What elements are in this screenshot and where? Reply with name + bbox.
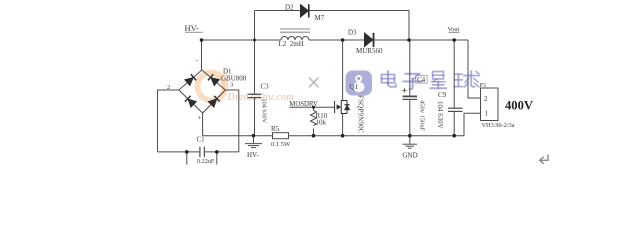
svg-text:0.22uF: 0.22uF <box>197 158 215 165</box>
svg-text:D3: D3 <box>348 29 357 37</box>
svg-text:2: 2 <box>484 95 488 103</box>
svg-text:L2 2mH: L2 2mH <box>279 40 304 48</box>
svg-text:VH3.96-2/3a: VH3.96-2/3a <box>482 122 515 129</box>
svg-text:C3: C3 <box>261 83 270 91</box>
svg-text:10k: 10k <box>316 119 327 127</box>
svg-text:P3: P3 <box>480 83 486 89</box>
svg-text:3: 3 <box>230 82 233 89</box>
svg-text:GND: GND <box>403 152 418 160</box>
svg-text:1: 1 <box>485 110 489 118</box>
svg-text:104 630V: 104 630V <box>436 101 444 129</box>
svg-text:R5: R5 <box>271 125 280 133</box>
svg-text:FSQP9N90C: FSQP9N90C <box>356 95 364 134</box>
svg-text:MOSDRV: MOSDRV <box>289 101 318 108</box>
svg-text:D2: D2 <box>285 4 294 12</box>
svg-text:M7: M7 <box>315 14 325 22</box>
svg-text:-: - <box>196 56 199 64</box>
svg-text:GBU808: GBU808 <box>221 75 247 83</box>
svg-text:0.1 5W: 0.1 5W <box>271 141 291 148</box>
svg-text:450v 150uF: 450v 150uF <box>419 100 426 132</box>
svg-text:C1: C1 <box>197 136 206 144</box>
svg-text:C9: C9 <box>438 91 447 99</box>
svg-text:104 630V: 104 630V <box>261 99 268 124</box>
svg-text:HV-: HV- <box>247 151 259 159</box>
svg-text:+: + <box>198 114 202 122</box>
svg-text:Q1: Q1 <box>350 83 359 91</box>
svg-text:HV-: HV- <box>185 23 199 33</box>
svg-text:400V: 400V <box>505 99 533 113</box>
svg-text:MUR560: MUR560 <box>356 47 383 55</box>
svg-text:2: 2 <box>167 84 170 91</box>
